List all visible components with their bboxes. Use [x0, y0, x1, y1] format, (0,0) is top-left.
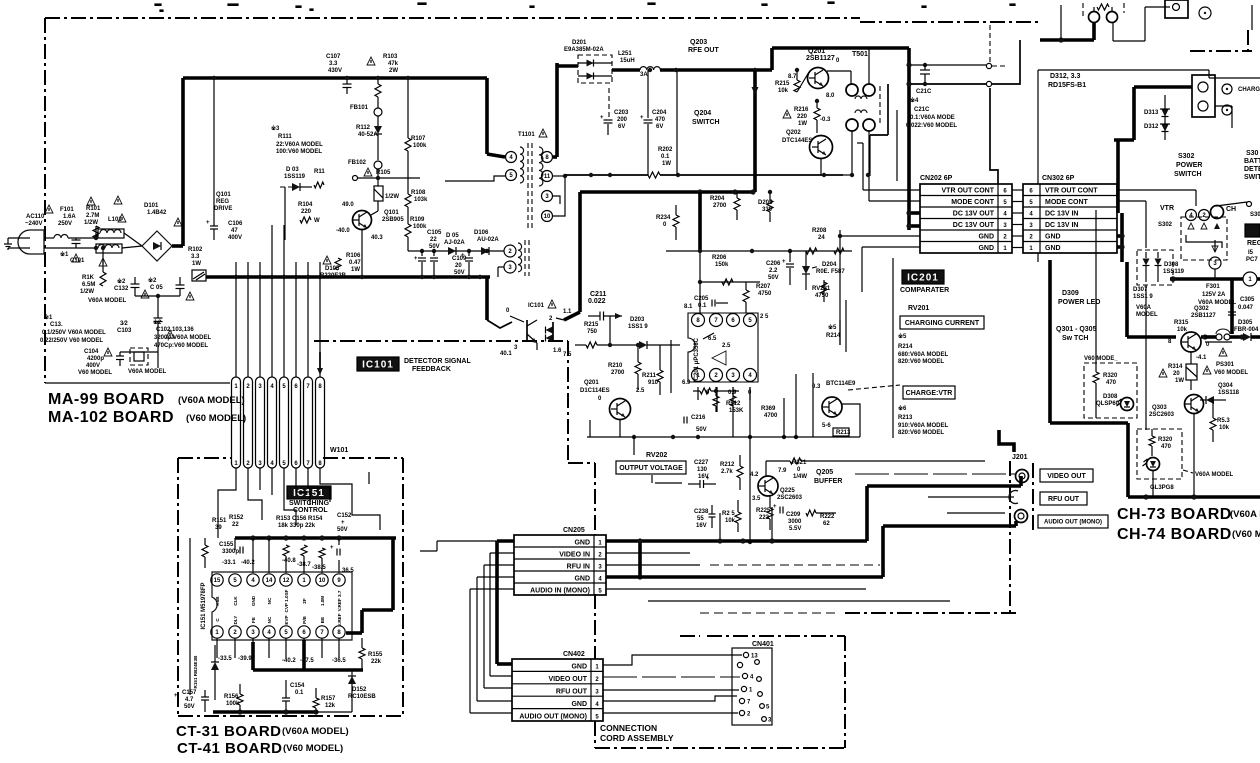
- svg-text:7.5: 7.5: [563, 352, 572, 358]
- svg-text:DETE: DETE: [1244, 166, 1260, 173]
- svg-text:4750: 4750: [758, 291, 772, 297]
- thick wire: bridge output to main bus: [172, 244, 183, 248]
- svg-text:8.7: 8.7: [788, 74, 797, 80]
- svg-text:50V: 50V: [696, 427, 707, 433]
- svg-text:RV202: RV202: [646, 452, 667, 459]
- svg-text:PS301: PS301: [1216, 362, 1235, 368]
- svg-text:GND: GND: [571, 701, 587, 708]
- svg-text:D308: D308: [1103, 394, 1118, 400]
- svg-text:AJ-02A: AJ-02A: [444, 240, 465, 246]
- svg-text:+: +: [414, 256, 418, 262]
- svg-text:2.5: 2.5: [636, 388, 645, 394]
- bottom bus CT board: [213, 710, 316, 714]
- svg-text:FB102: FB102: [348, 160, 367, 166]
- wire bus to C106: [213, 78, 215, 222]
- svg-text:1SS119: 1SS119: [284, 174, 306, 180]
- svg-text:AC110: AC110: [26, 214, 45, 220]
- thick jog from rail to net: [887, 84, 889, 135]
- svg-text:GND: GND: [978, 245, 994, 252]
- svg-text:RFE OUT: RFE OUT: [688, 47, 719, 54]
- bottom pin wires: [216, 638, 218, 658]
- svg-text:50V: 50V: [337, 527, 348, 533]
- svg-text:2.2: 2.2: [769, 268, 778, 274]
- Q202b emitter loop: [842, 404, 860, 437]
- svg-text:-38.5: -38.5: [312, 565, 326, 571]
- svg-text:470: 470: [1106, 380, 1117, 386]
- comparator IC201 body: [688, 313, 758, 382]
- svg-text:I5: I5: [1248, 250, 1254, 256]
- indicator circle: [1199, 7, 1211, 19]
- svg-text:1SS118: 1SS118: [1218, 390, 1240, 396]
- svg-text:22: 22: [430, 237, 437, 243]
- svg-text:3000: 3000: [788, 519, 802, 525]
- svg-text:R5.3: R5.3: [1217, 418, 1230, 424]
- Q303 wire to bus 337: [1205, 341, 1232, 343]
- svg-text:※2: ※2: [153, 318, 162, 326]
- svg-text:200: 200: [617, 117, 628, 123]
- svg-text:3⁄2: 3⁄2: [120, 321, 128, 327]
- wire y=391 with R512 resistor: [693, 390, 700, 392]
- svg-text:CONTROL: CONTROL: [293, 507, 328, 514]
- left inner vertical wires CT: [189, 560, 191, 645]
- row3 RFU IN wire: [606, 564, 700, 566]
- svg-text:S302: S302: [1178, 153, 1194, 160]
- CN401 pins: [743, 652, 748, 657]
- svg-text:D305: D305: [1238, 320, 1253, 326]
- svg-text:C21C: C21C: [916, 89, 932, 95]
- svg-text:10k: 10k: [778, 88, 789, 94]
- svg-text:R202: R202: [658, 147, 673, 153]
- svg-text:C106: C106: [228, 221, 243, 227]
- svg-text:(V60A MODEL): (V60A MODEL): [282, 726, 349, 737]
- svg-text:-33.5: -33.5: [218, 656, 232, 662]
- svg-text:-40.8: -40.8: [282, 558, 296, 564]
- svg-text:F301: F301: [1206, 284, 1220, 290]
- svg-text:CH-73 BOARD: CH-73 BOARD: [1117, 506, 1232, 523]
- svg-text:4700: 4700: [764, 413, 778, 419]
- battery terminal circles: [1089, 12, 1100, 23]
- svg-text:R112: R112: [356, 125, 371, 131]
- svg-text:D 05: D 05: [446, 233, 459, 239]
- IC301 black label (cut at edge): [1245, 224, 1260, 237]
- fuse F301 symbol: [1216, 334, 1222, 340]
- svg-text:IC151: IC151: [293, 488, 325, 499]
- svg-text:IC101: IC101: [528, 303, 545, 309]
- links CN202-CN302: [1012, 189, 1023, 191]
- svg-text:R108: R108: [411, 190, 426, 196]
- IC201 pins top 8,7,6,5: [692, 314, 705, 327]
- svg-text:Q204: Q204: [694, 110, 711, 117]
- svg-text:R151: R151: [212, 518, 227, 524]
- svg-text:1SS1 9: 1SS1 9: [628, 324, 648, 330]
- svg-text:D201: D201: [572, 40, 587, 46]
- svg-text:J201: J201: [1012, 454, 1028, 461]
- scan speckles top edge: [155, 4, 161, 5]
- svg-text:CHARG: CHARG: [1238, 87, 1260, 93]
- transistor Q225 2SC2603 buffer: [758, 476, 778, 496]
- svg-text:1SS119: 1SS119: [1163, 269, 1185, 275]
- svg-text:2F: 2F: [302, 598, 307, 604]
- svg-text:IC151 M51978FP: IC151 M51978FP: [201, 582, 207, 629]
- svg-text:GND: GND: [571, 664, 587, 671]
- svg-text:Q202: Q202: [786, 130, 801, 136]
- svg-text:4.2: 4.2: [750, 472, 759, 478]
- svg-text:DLY: DLY: [233, 616, 238, 625]
- svg-text:T1101: T1101: [518, 132, 535, 138]
- svg-text:2SB1127: 2SB1127: [1191, 313, 1216, 319]
- svg-text:+: +: [782, 259, 786, 265]
- svg-text:R320: R320: [1103, 373, 1118, 379]
- svg-text:VIDEO OUT: VIDEO OUT: [1047, 473, 1086, 480]
- svg-text:3300p: 3300p: [222, 549, 239, 555]
- svg-text:2SB1127: 2SB1127: [806, 55, 835, 62]
- svg-text:R101: R101: [86, 206, 101, 212]
- svg-text:4.7: 4.7: [185, 697, 194, 703]
- svg-text:3.5: 3.5: [752, 496, 761, 502]
- svg-text:1SS1 9: 1SS1 9: [1133, 294, 1153, 300]
- svg-text:V60 MODEL: V60 MODEL: [78, 370, 112, 376]
- svg-text:430V: 430V: [328, 68, 342, 74]
- wire C21C rail to circles: [909, 64, 986, 66]
- svg-text:GND: GND: [574, 576, 590, 583]
- svg-text:S30: S30: [1246, 150, 1259, 157]
- svg-text:15: 15: [214, 578, 221, 584]
- svg-text:8.0: 8.0: [826, 93, 835, 99]
- svg-text:DTC144ES: DTC144ES: [782, 138, 812, 144]
- svg-text:GND: GND: [978, 234, 994, 241]
- wire row6 to switch: [1117, 189, 1196, 191]
- svg-text:+: +: [341, 520, 345, 526]
- svg-text:C227: C227: [694, 460, 709, 466]
- svg-text:2SB905: 2SB905: [382, 217, 404, 223]
- svg-text:CVP 1.0SF: CVP 1.0SF: [284, 589, 289, 612]
- main thick bus y=337: [1127, 335, 1176, 339]
- svg-text:6.5: 6.5: [708, 336, 717, 342]
- wire y=461 to jacks: [766, 460, 790, 462]
- svg-text:R222: R222: [820, 514, 835, 520]
- svg-text:R206: R206: [712, 255, 727, 261]
- svg-text:Q101: Q101: [384, 210, 399, 216]
- svg-text:-37.5: -37.5: [300, 658, 314, 664]
- svg-text:R212: R212: [720, 462, 735, 468]
- svg-text:SWITCH: SWITCH: [1174, 171, 1202, 178]
- top-right dash-dot border: [1190, 50, 1252, 52]
- svg-text:Sw TCH: Sw TCH: [1062, 335, 1088, 342]
- svg-text:AUDIO OUT (MONO): AUDIO OUT (MONO): [1044, 520, 1102, 526]
- svg-text:-33.1: -33.1: [222, 560, 236, 566]
- RFU OUT box: [1040, 492, 1087, 505]
- svg-text:10k: 10k: [1219, 425, 1230, 431]
- svg-text:47k: 47k: [388, 61, 399, 67]
- svg-text:R152: R152: [229, 515, 244, 521]
- AUDIO OUT jack: [1015, 510, 1028, 523]
- svg-text:CLK: CLK: [233, 596, 238, 606]
- svg-text:6.9: 6.9: [682, 380, 691, 386]
- net x=677 bus to y175: [676, 70, 678, 175]
- svg-text:6V: 6V: [618, 124, 625, 130]
- svg-text:C109: C109: [452, 256, 467, 262]
- svg-text:MODE CONT: MODE CONT: [1045, 199, 1089, 206]
- svg-text:-39.9: -39.9: [238, 656, 252, 662]
- transistor Q302: [1181, 332, 1201, 352]
- svg-text:IC201: IC201: [907, 273, 939, 284]
- svg-text:+: +: [330, 545, 334, 551]
- svg-text:CORD ASSEMBLY: CORD ASSEMBLY: [600, 733, 674, 743]
- row4 GND bus to audio jack: [606, 575, 883, 579]
- svg-text:D308: D308: [1164, 262, 1179, 268]
- svg-text:+: +: [174, 693, 178, 699]
- svg-text:Q225: Q225: [780, 488, 795, 494]
- svg-text:V.REF: V.REF: [337, 613, 342, 626]
- svg-text:+: +: [600, 115, 604, 121]
- svg-text:R369: R369: [761, 406, 776, 412]
- thick verticals CN302 right: [1120, 213, 1124, 262]
- svg-text:D204: D204: [822, 262, 837, 268]
- svg-text:20: 20: [1173, 371, 1180, 377]
- svg-text:2SC2603: 2SC2603: [777, 495, 803, 501]
- svg-text:(V60A MODEL): (V60A MODEL): [178, 395, 245, 406]
- J201 jack area dash-dot border: [1009, 461, 1011, 613]
- svg-text:C 05: C 05: [150, 285, 163, 291]
- svg-text:SWITCHING: SWITCHING: [289, 500, 330, 507]
- svg-text:DC 13V OUT: DC 13V OUT: [953, 222, 995, 229]
- svg-text:V60 MODEL: V60 MODEL: [1214, 370, 1248, 376]
- svg-text:0.047: 0.047: [1238, 305, 1254, 311]
- svg-text:0.1/250V V60A MODEL: 0.1/250V V60A MODEL: [42, 330, 106, 336]
- thick drop x=580 to IC101: [578, 192, 582, 312]
- svg-text:1.0M: 1.0M: [320, 596, 325, 606]
- svg-text:CT-31 BOARD: CT-31 BOARD: [176, 723, 282, 740]
- svg-text:2SC2603: 2SC2603: [1149, 412, 1175, 418]
- svg-text:D101: D101: [144, 203, 159, 209]
- wires into CN202 left: [863, 189, 920, 191]
- svg-text:P/B: P/B: [302, 615, 307, 623]
- svg-text:RV201: RV201: [908, 305, 929, 312]
- svg-text:820:V60 MODEL: 820:V60 MODEL: [898, 359, 944, 365]
- GL3PG8 dashed box with LED D409: [1137, 429, 1182, 479]
- thick riser to y=48 rail: [770, 48, 774, 70]
- IC101 black label: [357, 357, 399, 371]
- svg-text:DC 13V OUT: DC 13V OUT: [953, 211, 995, 218]
- svg-text:C216: C216: [691, 415, 706, 421]
- dashed box D307/D308: [1137, 250, 1173, 285]
- svg-text:※2: ※2: [148, 276, 157, 284]
- IC151 black label: [287, 486, 331, 499]
- svg-text:C204: C204: [652, 110, 667, 116]
- svg-text:R213: R213: [898, 415, 913, 421]
- wire row5 stub: [1117, 200, 1146, 202]
- svg-text:40-52A: 40-52A: [358, 132, 378, 138]
- DC jack: [1165, 0, 1188, 18]
- IC201 pin wires: [698, 192, 702, 251]
- svg-text:0.022: 0.022: [588, 298, 606, 305]
- svg-text:W101: W101: [330, 447, 348, 454]
- wire y=251 cluster: [666, 250, 830, 252]
- svg-text:D312: D312: [1144, 124, 1159, 130]
- CT thick bus y=538: [235, 536, 396, 540]
- svg-text:1/2W: 1/2W: [385, 194, 399, 200]
- svg-text:22k: 22k: [371, 659, 382, 665]
- open border-crossing circles: [986, 63, 991, 68]
- AUDIO OUT MONO box: [1038, 515, 1108, 528]
- svg-text:Q304: Q304: [1218, 383, 1233, 389]
- svg-text:CHARGING CURRENT: CHARGING CURRENT: [905, 320, 980, 327]
- svg-text:R111: R111: [278, 134, 292, 140]
- svg-text:+: +: [706, 476, 710, 482]
- thick bus y=78 to transformer: [183, 76, 487, 80]
- CN401 wires from CN402: [603, 655, 742, 665]
- opamp symbol inside IC201: [712, 351, 726, 365]
- svg-text:+: +: [640, 115, 644, 121]
- svg-text:QLSP60: QLSP60: [1096, 401, 1120, 407]
- svg-text:153K: 153K: [729, 408, 744, 414]
- svg-text:C103: C103: [117, 328, 132, 334]
- svg-text:130: 130: [697, 467, 708, 473]
- thick corner of bus into opto: [485, 277, 489, 320]
- svg-text:20: 20: [455, 263, 462, 269]
- svg-text:BUFFER: BUFFER: [814, 478, 842, 485]
- svg-text:400V: 400V: [228, 235, 242, 241]
- svg-text:-40.0: -40.0: [336, 228, 350, 234]
- capacitor C101: [75, 238, 77, 240]
- svg-text:Q101: Q101: [216, 192, 231, 198]
- svg-text:15uH: 15uH: [620, 58, 635, 64]
- video out wire: [855, 473, 1015, 475]
- pin6 thick drop: [302, 640, 306, 670]
- svg-text:R208: R208: [812, 228, 827, 234]
- svg-text:D1C114ES: D1C114ES: [580, 388, 610, 394]
- svg-text:0.22/250V V60 MODEL: 0.22/250V V60 MODEL: [40, 338, 103, 344]
- svg-text:V60 MODE_: V60 MODE_: [1084, 356, 1118, 362]
- svg-text:※3: ※3: [271, 124, 280, 132]
- svg-text:※5: ※5: [828, 323, 837, 331]
- svg-text:VIDEO IN: VIDEO IN: [559, 552, 590, 559]
- svg-text:D106: D106: [474, 230, 489, 236]
- junction dots on CH bottom bus: [1143, 494, 1148, 499]
- svg-text:VTR OUT CONT: VTR OUT CONT: [1045, 188, 1098, 195]
- svg-text:R1K: R1K: [82, 275, 95, 281]
- svg-text:AUDIO OUT (MONO): AUDIO OUT (MONO): [519, 713, 587, 720]
- svg-text:V60A: V60A: [1136, 305, 1152, 311]
- svg-text:2700: 2700: [713, 203, 727, 209]
- svg-text:C211: C211: [590, 291, 606, 298]
- svg-text:R315: R315: [1174, 320, 1189, 326]
- thick drop x=755 to bus y=192: [753, 70, 757, 192]
- svg-text:1W: 1W: [351, 267, 360, 273]
- wires from W101 bottom into CT board: [218, 478, 236, 538]
- svg-text:FBR-004: FBR-004: [1234, 327, 1259, 333]
- long vertical nets: [1145, 201, 1147, 248]
- svg-text:R107: R107: [411, 136, 426, 142]
- svg-text:5-6: 5-6: [822, 423, 831, 429]
- svg-text:0.022:V60 MODEL: 0.022:V60 MODEL: [906, 123, 957, 129]
- svg-text:0.1: 0.1: [295, 690, 304, 696]
- row2 VIDEO IN wire: [606, 552, 690, 554]
- thick drop x=909 to CN202: [907, 48, 911, 230]
- svg-text:FB101: FB101: [350, 105, 369, 111]
- svg-text:12: 12: [283, 578, 290, 584]
- wire from border circles to pin6: [990, 88, 998, 184]
- svg-text:NC: NC: [267, 597, 272, 604]
- svg-text:1/2W: 1/2W: [80, 289, 94, 295]
- circled 3 below switch: [1209, 257, 1221, 269]
- svg-text:GND: GND: [1045, 245, 1061, 252]
- svg-text:FE: FE: [251, 617, 256, 623]
- svg-text:BATT: BATT: [1244, 158, 1260, 165]
- svg-text:49.0: 49.0: [342, 202, 354, 208]
- CHARGING CURRENT box: [900, 316, 984, 329]
- svg-text:5.5V: 5.5V: [789, 526, 801, 532]
- CH board thick border: [1048, 260, 1052, 423]
- CH-73/CH-74 board thin border: [1038, 69, 1209, 71]
- svg-text:CT-41 BOARD: CT-41 BOARD: [177, 740, 283, 757]
- thick bus y=279 with Q301: [1170, 277, 1243, 281]
- svg-text:50V: 50V: [454, 270, 465, 276]
- right side thick loop: [391, 538, 395, 610]
- svg-text:C203: C203: [614, 110, 629, 116]
- svg-text:0.1: 0.1: [661, 154, 670, 160]
- svg-text:DC 13V IN: DC 13V IN: [1045, 222, 1078, 229]
- svg-text:POWER LED: POWER LED: [1058, 299, 1100, 306]
- wire y=437: [587, 436, 860, 438]
- svg-text:E9A385M-02A: E9A385M-02A: [564, 47, 604, 53]
- svg-text:CN402: CN402: [563, 651, 585, 658]
- CT-31/CT-41 board border: [178, 457, 232, 459]
- svg-text:※4: ※4: [910, 96, 919, 104]
- wire pin 11 to long net y=175: [553, 175, 565, 177]
- svg-text:T501: T501: [852, 51, 868, 58]
- OUTPUT VOLTAGE box: [616, 461, 686, 474]
- resistor R105 (box): [374, 186, 383, 201]
- svg-text:2.5: 2.5: [722, 343, 731, 349]
- VIDEO OUT box: [1040, 469, 1093, 482]
- svg-text:R215: R215: [775, 81, 790, 87]
- svg-text:K6B: K6B: [215, 596, 220, 606]
- IC151 body: [212, 572, 352, 640]
- CHARGE VTR box: [903, 386, 955, 399]
- svg-text:L251: L251: [618, 51, 632, 57]
- svg-text:POWER: POWER: [1176, 162, 1202, 169]
- svg-text:CONNECTION: CONNECTION: [600, 723, 657, 733]
- svg-text:C205: C205: [694, 296, 709, 302]
- svg-text:RD15FS-B1: RD15FS-B1: [1048, 82, 1086, 89]
- IC151 bottom pin circles: [211, 626, 223, 638]
- W link box: [192, 270, 206, 281]
- svg-text:R105: R105: [376, 170, 391, 176]
- svg-text:910:V60A MODEL: 910:V60A MODEL: [898, 423, 948, 429]
- pin stem resistors: [283, 545, 289, 556]
- svg-text:DETECTOR SIGNAL: DETECTOR SIGNAL: [404, 358, 471, 365]
- svg-text:CN202 6P: CN202 6P: [920, 175, 953, 182]
- svg-text:100k: 100k: [413, 224, 427, 230]
- svg-text:V60A MODEL: V60A MODEL: [1195, 472, 1233, 478]
- capacitor C21C: [923, 63, 927, 67]
- svg-text:R214: R214: [826, 333, 841, 339]
- svg-text:DC 13V IN: DC 13V IN: [1045, 211, 1078, 218]
- svg-text:CH-74 BOARD: CH-74 BOARD: [1117, 526, 1232, 543]
- svg-text:GND: GND: [251, 595, 256, 606]
- svg-text:(V60 MODEL): (V60 MODEL): [186, 413, 246, 424]
- svg-text:D203: D203: [630, 317, 645, 323]
- IC151 top pin circles: [211, 574, 223, 586]
- long thin nets left of IC201: [892, 258, 894, 438]
- svg-text:SWITCH: SWITCH: [692, 119, 720, 126]
- charge indicator circles: [1222, 84, 1232, 94]
- svg-text:R102: R102: [188, 247, 203, 253]
- svg-text:55: 55: [697, 516, 704, 522]
- AC plug P101: [18, 230, 44, 254]
- svg-text:1.4B42: 1.4B42: [147, 210, 167, 216]
